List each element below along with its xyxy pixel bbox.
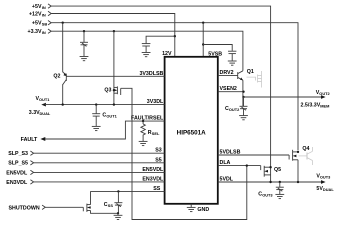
node junction Q4 drain <box>297 151 299 153</box>
svg-text:+5V: +5V <box>32 21 42 27</box>
svg-text:OUT3: OUT3 <box>262 193 273 198</box>
CSS value label <box>104 202 114 208</box>
svg-text:3.3V: 3.3V <box>29 110 40 116</box>
svg-text:SEL: SEL <box>152 131 160 136</box>
svg-text:OUT2: OUT2 <box>319 91 330 96</box>
svg-text:IN: IN <box>42 12 46 17</box>
node junction Q2 collector on VOUT1 <box>62 103 64 105</box>
svg-text:Q3: Q3 <box>104 87 111 93</box>
node VOUT2 output arrow <box>321 95 326 99</box>
ground under RSEL <box>139 141 148 145</box>
node EN5VDL input terminal <box>30 170 33 174</box>
svg-text:HIP6501A: HIP6501A <box>177 130 207 137</box>
svg-text:Q4: Q4 <box>302 146 309 152</box>
svg-text:FAULT: FAULT <box>21 137 38 143</box>
wire +5VSB rail <box>51 23 298 151</box>
svg-text:Q2: Q2 <box>53 74 60 80</box>
wire S5 line <box>34 162 165 164</box>
wire FAULT/RSEL pin line <box>45 121 165 139</box>
svg-text:+12V: +12V <box>29 11 42 17</box>
svg-text:3V3DL: 3V3DL <box>147 99 164 105</box>
svg-text:S3: S3 <box>155 148 162 154</box>
node junction DLA to Q3 gate loop <box>246 164 248 166</box>
op-amp U1 HIP6501A chip body <box>165 57 218 204</box>
wire 5VSB pin feed <box>202 23 204 57</box>
svg-text:EN3VDL: EN3VDL <box>6 180 28 186</box>
transistor Q4 alternate PNP ghost <box>299 147 313 165</box>
node junction Q3 source on VOUT1 <box>113 103 115 105</box>
wire DRV2 pin line <box>218 75 238 77</box>
capacitor CSS <box>114 190 122 213</box>
svg-text:OUT3: OUT3 <box>320 175 331 180</box>
node FAULT output arrow <box>40 137 45 141</box>
net +3.3VIN label <box>28 29 46 35</box>
svg-text:DLA: DLA <box>220 160 231 166</box>
wire 12V bypass branch <box>146 36 175 43</box>
capacitor bypass on 5VSB <box>228 51 236 61</box>
net +5VIN label <box>32 4 46 10</box>
transistor Q5 NMOS <box>261 166 271 182</box>
COUT1 value label <box>102 113 117 119</box>
ground under COUT3 <box>275 194 284 198</box>
svg-text:5VDL: 5VDL <box>220 177 234 183</box>
ground under 3.3VIN cap <box>80 57 89 61</box>
wire Q4 source drop <box>297 160 299 182</box>
wire 5VSB bypass branch <box>203 45 232 51</box>
svg-text:IN: IN <box>42 30 46 35</box>
node junction 5VSB branch to cap <box>202 43 204 45</box>
node SLP_S3 input terminal <box>30 151 33 155</box>
node EN3VDL input terminal <box>30 180 33 184</box>
node junction +5VSB to Q2 <box>62 22 64 24</box>
svg-text:2.5/3.3V: 2.5/3.3V <box>301 102 321 108</box>
RSEL value label <box>148 130 160 136</box>
COUT2 value label <box>225 106 240 112</box>
node junction VSEN2 <box>242 91 244 93</box>
capacitor COUT3 <box>276 181 284 194</box>
svg-text:EN3VDL: EN3VDL <box>142 176 164 182</box>
svg-text:OUT1: OUT1 <box>39 97 50 102</box>
resistor RSEL <box>141 121 145 141</box>
ground under COUT2 <box>239 116 248 120</box>
COUT3 value label <box>258 192 273 198</box>
ground under GND pin <box>187 207 196 211</box>
capacitor COUT1 <box>92 103 100 126</box>
net 3.3VDUAL label <box>29 110 51 116</box>
svg-text:SB: SB <box>42 22 48 27</box>
svg-text:SHUTDOWN: SHUTDOWN <box>8 205 39 211</box>
transistor Q1 NPN <box>238 71 243 106</box>
node +5VSB input terminal <box>48 21 51 25</box>
transistor Q1 alternate NMOS ghost <box>247 71 262 88</box>
svg-text:3V3DLSB: 3V3DLSB <box>139 71 163 77</box>
node junction Q5 drain <box>269 166 271 168</box>
svg-text:EN5VDL: EN5VDL <box>6 170 28 176</box>
node SLP_S5 input terminal <box>30 161 33 165</box>
wire 5VDL / VOUT3 line <box>218 181 322 183</box>
svg-text:DUAL: DUAL <box>323 187 334 192</box>
net VOUT3 label <box>316 174 331 180</box>
wire EN5VDL line <box>34 171 165 173</box>
node +3.3VIN input terminal <box>48 29 51 33</box>
svg-text:Q5: Q5 <box>274 167 281 173</box>
ground under COUT1 <box>92 126 101 130</box>
wire 5VDLSB pin line <box>218 154 289 156</box>
svg-text:+3.3V: +3.3V <box>28 29 42 35</box>
net VOUT1 label <box>36 96 51 102</box>
node junction +3.3VIN to Q3 drain <box>113 30 115 32</box>
svg-text:S5: S5 <box>155 157 162 163</box>
node junction +5VSB to 5VSB pin <box>202 22 204 24</box>
node VOUT3 output arrow <box>321 180 326 184</box>
node junction Q4 source on VOUT3 <box>297 181 299 183</box>
net 2.5/3.3VMEM label <box>301 102 330 108</box>
wire SHUTDOWN gate line <box>45 206 83 208</box>
svg-text:SS: SS <box>108 203 114 208</box>
wire SS line <box>91 190 165 192</box>
wire EN3VDL line <box>34 181 165 183</box>
wire 3V3DLSB pin line <box>66 75 164 77</box>
capacitor bypass on 3.3VIN <box>80 31 88 56</box>
transistor Q2 PNP <box>63 72 67 105</box>
wire Q2 emitter feed <box>62 23 64 72</box>
wire +12VIN rail <box>51 14 175 57</box>
svg-text:SLP_S3: SLP_S3 <box>8 151 28 157</box>
node +5VIN input terminal <box>48 4 51 8</box>
svg-text:DRV2: DRV2 <box>220 70 234 76</box>
wire DLA pin line <box>218 165 261 167</box>
svg-text:VSEN2: VSEN2 <box>220 86 237 92</box>
svg-text:5VSB: 5VSB <box>208 51 222 57</box>
ground under CSS <box>114 213 123 219</box>
svg-text:SS: SS <box>153 186 161 192</box>
svg-text:SLP_S5: SLP_S5 <box>8 161 28 167</box>
transistor Q3 NMOS <box>113 86 247 219</box>
node junction RSEL tap <box>142 120 144 122</box>
node junction 12V branch to cap <box>174 35 176 37</box>
node junction CSS ground <box>117 212 119 214</box>
wire Q3 drain feed <box>113 31 115 104</box>
svg-text:5VDLSB: 5VDLSB <box>220 150 241 156</box>
capacitor bypass on 12V <box>142 44 151 53</box>
node junction Q5 source on VOUT3 <box>269 181 271 183</box>
net VOUT2 label <box>316 90 331 96</box>
wire VSEN2 pin line <box>218 91 244 93</box>
net +5VSB label <box>32 21 47 27</box>
ground under 5VSB cap <box>228 61 237 65</box>
svg-text:EN5VDL: EN5VDL <box>142 167 164 173</box>
node VOUT1 output arrow <box>41 103 46 107</box>
transistor Q6 shutdown NMOS <box>83 191 118 213</box>
net 5VDUAL label <box>316 186 334 192</box>
svg-text:MEM: MEM <box>320 103 329 108</box>
svg-text:IN: IN <box>42 5 46 10</box>
capacitor COUT2 <box>240 97 248 115</box>
svg-text:DUAL: DUAL <box>40 111 51 116</box>
svg-text:OUT1: OUT1 <box>106 114 117 119</box>
node junction VOUT2 <box>242 96 244 98</box>
node +12VIN input terminal <box>48 11 51 15</box>
svg-text:FAULT/RSEL: FAULT/RSEL <box>131 115 164 121</box>
net +12VIN label <box>29 11 46 17</box>
pin GND stub <box>190 204 192 207</box>
node SHUTDOWN input terminal <box>42 205 45 209</box>
node junction +3.3VIN to bypass cap <box>83 30 85 32</box>
wire S3 line <box>34 152 165 154</box>
ground under 12V cap <box>142 53 151 57</box>
svg-text:OUT2: OUT2 <box>229 107 240 112</box>
svg-text:+5V: +5V <box>32 4 42 10</box>
svg-text:GND: GND <box>197 207 209 213</box>
wire VOUT1 / 3V3DL line <box>45 104 165 106</box>
wire VOUT2 line <box>244 96 322 98</box>
svg-text:12V: 12V <box>162 51 172 57</box>
transistor Q4 NMOS <box>289 150 298 161</box>
svg-text:Q1: Q1 <box>247 69 254 75</box>
wire +5VIN rail <box>51 6 270 167</box>
wire +3.3VIN rail <box>51 31 243 71</box>
